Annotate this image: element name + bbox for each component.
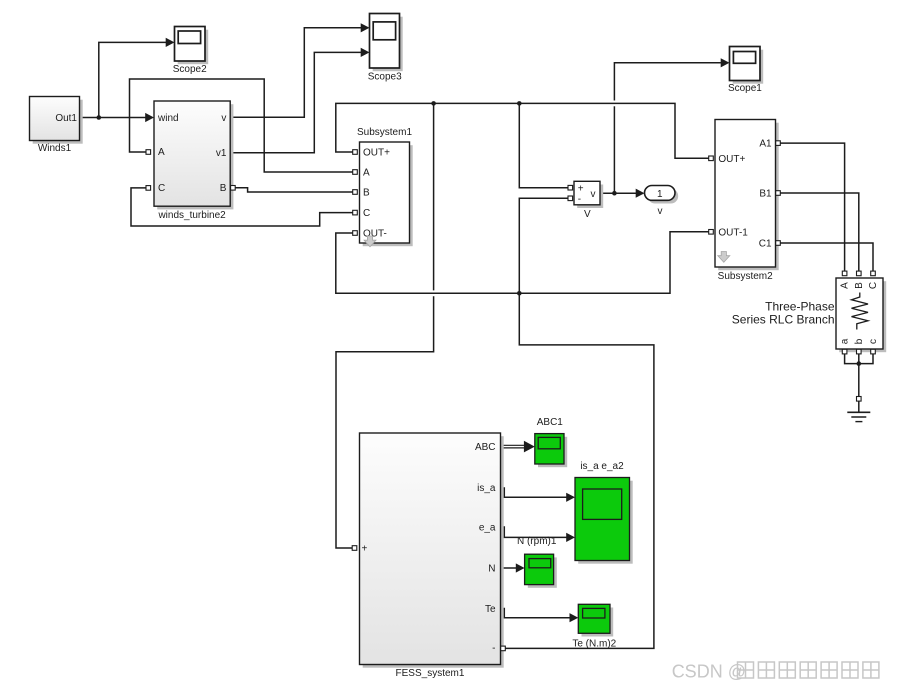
- block Subsystem1: [353, 127, 413, 247]
- svg-text:OUT-1: OUT-1: [718, 227, 748, 238]
- svg-text:b: b: [854, 338, 865, 344]
- svg-text:ABC1: ABC1: [537, 417, 564, 428]
- wire net A: winds_turbine2.A to Subsystem1.A: [130, 79, 353, 172]
- block winds_turbine2: [146, 101, 235, 221]
- svg-text:Series RLC Branch: Series RLC Branch: [732, 313, 835, 327]
- watermark CSDN: [672, 662, 879, 682]
- svg-text:CSDN @: CSDN @: [672, 662, 746, 682]
- wire v to Scope3 input1: [230, 28, 361, 117]
- block V voltage measurement: [568, 181, 603, 220]
- svg-text:B: B: [220, 183, 227, 194]
- display is_a e_a2 green scope: [575, 461, 633, 564]
- wire net B: winds_turbine2.B to Subsystem1.B: [235, 188, 353, 192]
- svg-text:-: -: [492, 643, 495, 654]
- svg-text:Scope3: Scope3: [368, 72, 402, 83]
- svg-text:OUT+: OUT+: [718, 154, 745, 165]
- block FESS_system1: [352, 433, 505, 679]
- svg-text:OUT+: OUT+: [363, 147, 390, 158]
- wire RLC bottom bus to ground: [845, 354, 873, 364]
- svg-text:v: v: [591, 189, 596, 200]
- wire C1 to RLC C: [780, 243, 873, 271]
- wire OUT- bus: Subsystem1.OUT- to Subsystem2.OUT-1: [336, 232, 709, 293]
- wire branch V output to Scope1 (gap at crossing): [613, 106, 615, 193]
- svg-text:a: a: [840, 338, 851, 344]
- svg-text:v: v: [658, 206, 663, 217]
- svg-text:Three-Phase: Three-Phase: [765, 300, 835, 314]
- block Subsystem2: [709, 120, 781, 282]
- ground: [847, 411, 870, 413]
- svg-text:is_a: is_a: [477, 483, 496, 494]
- wire V output to outport v: [600, 192, 636, 194]
- svg-text:ABC: ABC: [475, 442, 496, 453]
- display N (rpm)1 green scope: [517, 536, 557, 588]
- block Three-Phase Series RLC Branch: [836, 271, 886, 354]
- svg-text:FESS_system1: FESS_system1: [396, 668, 465, 679]
- wire Out1 to wind: [80, 117, 147, 119]
- wire N to display: [501, 567, 517, 569]
- svg-text:e_a: e_a: [479, 523, 496, 534]
- svg-text:Out1: Out1: [55, 113, 77, 124]
- svg-text:is_a e_a2: is_a e_a2: [580, 461, 624, 472]
- svg-text:Subsystem2: Subsystem2: [718, 271, 773, 282]
- wire minus net: V minus to FESS minus: [505, 198, 654, 648]
- svg-text:Scope1: Scope1: [728, 83, 762, 94]
- outport oval v: [645, 186, 679, 218]
- svg-text:A: A: [363, 167, 370, 178]
- svg-text:N: N: [488, 564, 495, 575]
- svg-text:-: -: [578, 194, 581, 205]
- svg-text:A: A: [840, 282, 851, 289]
- svg-text:Subsystem1: Subsystem1: [357, 127, 412, 138]
- wire is_a to display: [501, 488, 567, 497]
- svg-text:C: C: [868, 282, 879, 289]
- svg-text:B: B: [363, 187, 370, 198]
- svg-text:v1: v1: [216, 148, 227, 159]
- wire B1 to RLC B: [780, 193, 859, 271]
- wire branch OUT+ bus to FESS plus (gap at crossing): [433, 103, 435, 290]
- wire A1 to RLC A: [780, 143, 845, 271]
- svg-text:Te: Te: [485, 604, 496, 615]
- wire branch OUT+ bus to V plus input: [519, 103, 568, 187]
- wire net C: winds_turbine2.C to Subsystem1.C: [131, 188, 353, 226]
- svg-text:B1: B1: [759, 189, 772, 200]
- svg-text:1: 1: [657, 189, 663, 200]
- scope Scope3: [368, 14, 403, 83]
- svg-text:A: A: [158, 147, 165, 158]
- display Te (N.m)2 green scope: [572, 604, 616, 649]
- svg-text:Scope2: Scope2: [173, 64, 207, 75]
- svg-text:Winds1: Winds1: [38, 143, 72, 154]
- wire v1 to Scope3 input2: [230, 52, 361, 152]
- svg-text:v: v: [221, 113, 226, 124]
- scope Scope1: [728, 47, 763, 94]
- svg-text:c: c: [868, 339, 879, 344]
- label Three-Phase Series RLC Branch: [732, 300, 835, 327]
- svg-text:A1: A1: [759, 139, 772, 150]
- svg-text:B: B: [854, 282, 865, 289]
- svg-text:+: +: [362, 544, 368, 555]
- svg-text:C: C: [158, 183, 165, 194]
- svg-text:wind: wind: [157, 113, 179, 124]
- svg-text:Te (N.m)2: Te (N.m)2: [572, 639, 616, 650]
- wire OUT+ bus: Subsystem1.OUT+ to Subsystem2.OUT+: [336, 103, 709, 158]
- wire Te to display: [501, 609, 570, 618]
- svg-text:N (rpm)1: N (rpm)1: [517, 536, 557, 547]
- svg-text:winds_turbine2: winds_turbine2: [157, 210, 226, 221]
- wire branch to Scope2: [99, 42, 166, 117]
- wire ABC three-phase to ABC1: [501, 444, 527, 446]
- svg-text:C: C: [363, 208, 370, 219]
- display ABC1 green scope: [535, 417, 567, 467]
- wire e_a to display: [501, 527, 567, 537]
- block Winds1: [30, 97, 83, 155]
- svg-text:V: V: [584, 209, 591, 220]
- scope Scope2: [173, 27, 208, 76]
- svg-text:C1: C1: [759, 239, 772, 250]
- svg-text:OUT-: OUT-: [363, 228, 387, 239]
